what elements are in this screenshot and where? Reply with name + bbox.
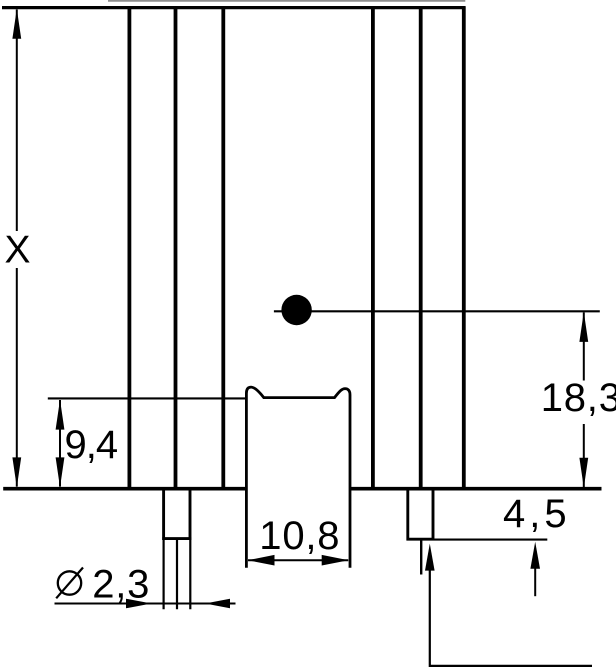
svg-text:X: X bbox=[5, 228, 31, 271]
svg-text:10,8: 10,8 bbox=[259, 514, 340, 558]
svg-text:2,3: 2,3 bbox=[92, 562, 150, 606]
svg-text:9,4: 9,4 bbox=[65, 423, 118, 467]
svg-text:4,5: 4,5 bbox=[503, 492, 571, 536]
svg-text:18,3: 18,3 bbox=[541, 376, 616, 420]
